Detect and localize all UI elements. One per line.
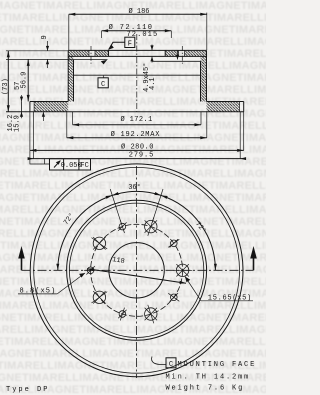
datum F box and leader — [109, 37, 135, 49]
leader 8.8(x5) — [18, 273, 85, 294]
hole radial center ticks — [84, 217, 193, 323]
dim diameter 192.2MAX — [67, 112, 207, 138]
svg-text:36°: 36° — [128, 183, 141, 192]
bolt hole large 288deg — [145, 308, 157, 320]
svg-text:4.1: 4.1 — [149, 77, 157, 90]
small hole 36deg — [170, 239, 178, 247]
dim diameter 172.1 — [73, 112, 201, 125]
mounting face C box — [166, 358, 176, 368]
dim 118 — [87, 269, 186, 284]
friction inner circle b — [69, 203, 203, 337]
dim 57 / 56.9 — [27, 59, 29, 101]
svg-text:(73): (73) — [2, 78, 10, 95]
center bore circle — [109, 243, 164, 298]
svg-text:MAGNETIMARELLIMAGNETIMARELLIMA: MAGNETIMARELLIMAGNETIMARELLIMAGNETIMAREL… — [0, 240, 266, 252]
svg-text:MAGNETIMARELLIMAGNETIMARELLIMA: MAGNETIMARELLIMAGNETIMARELLIMAGNETIMAREL… — [0, 204, 266, 216]
hub pilot step lines — [68, 60, 200, 65]
svg-text:Type DP: Type DP — [6, 386, 49, 394]
dim 72deg right — [161, 195, 215, 270]
svg-text:MAGNETIMARELLIMAGNETIMARELLIMA: MAGNETIMARELLIMAGNETIMARELLIMAGNETIMAREL… — [0, 276, 266, 288]
hat wall left — [68, 50, 73, 101]
svg-text:Ø 186: Ø 186 — [128, 7, 149, 16]
section cutting arrow left — [18, 246, 25, 270]
outer circle 279.5 — [34, 167, 240, 373]
svg-text:MAGNETIMARELLIMAGNETIMARELLIMA: MAGNETIMARELLIMAGNETIMARELLIMAGNETIMAREL… — [0, 252, 266, 264]
svg-text:MAGNETIMARELLIMAGNETIMARELLIMA: MAGNETIMARELLIMAGNETIMARELLIMAGNETIMAREL… — [0, 60, 266, 72]
svg-text:F: F — [128, 41, 132, 49]
section bottom edge line — [6, 111, 244, 113]
dim diameter 186 — [69, 13, 207, 50]
svg-text:FC: FC — [80, 162, 88, 170]
bolt hole large 216deg — [93, 291, 105, 303]
svg-text:Ø 192.2MAX: Ø 192.2MAX — [111, 130, 161, 139]
section cutting arrow right — [250, 246, 257, 270]
dim 72deg left — [58, 195, 112, 270]
mounting face line — [74, 74, 201, 76]
svg-text:MAGNETIMARELLIMAGNETIMARELLIMA: MAGNETIMARELLIMAGNETIMARELLIMAGNETIMAREL… — [0, 72, 266, 84]
bolt hole large 0deg — [176, 264, 188, 276]
svg-text:MAGNETIMARELLIMAGNETIMARELLIMA: MAGNETIMARELLIMAGNETIMARELLIMAGNETIMAREL… — [0, 48, 266, 60]
runout tolerance frame FC — [30, 150, 91, 170]
dim (73) — [6, 51, 42, 112]
mounting face leader curve — [152, 357, 166, 365]
chamfer dim arrows — [150, 45, 179, 63]
dim diameter 72.110 / 72.015 — [102, 31, 172, 38]
dim 9 left — [6, 41, 68, 68]
small hole 108deg — [118, 222, 126, 230]
dim diameter 280.0 — [30, 112, 244, 151]
dim 16.2 / 15.9 — [20, 95, 45, 121]
bolt hole large 72deg — [145, 220, 157, 232]
svg-text:MAGNETIMARELLIMAGNETIMARELLIMA: MAGNETIMARELLIMAGNETIMARELLIMAGNETIMAREL… — [0, 192, 266, 204]
outer circle 280 — [30, 164, 243, 377]
svg-text:Min. TH 14.2mm: Min. TH 14.2mm — [166, 373, 251, 381]
centerline section — [136, 34, 138, 112]
svg-text:C: C — [169, 361, 173, 369]
bolt circle dashed — [91, 224, 183, 316]
dim 279.5 — [28, 112, 247, 160]
bolt hole large 144deg — [93, 237, 105, 249]
hat plate top band — [68, 50, 207, 56]
svg-text:MAGNETIMARELLIMAGNETIMARELLIMA: MAGNETIMARELLIMAGNETIMARELLIMAGNETIMAREL… — [0, 168, 266, 180]
friction ring right — [207, 102, 244, 112]
svg-text:Weight 7.6 Kg: Weight 7.6 Kg — [166, 385, 245, 393]
small hole 324deg — [170, 293, 178, 301]
bolt hole centerlines in section — [91, 46, 182, 64]
vertical centerline bottom view — [136, 166, 138, 378]
dim 36deg — [110, 189, 163, 223]
friction ring left — [30, 102, 68, 112]
small hole 180deg — [86, 266, 94, 274]
svg-text:MAGNETIMARELLIMAGNETIMARELLIMA: MAGNETIMARELLIMAGNETIMARELLIMAGNETIMAREL… — [0, 84, 266, 96]
svg-text:72.015: 72.015 — [126, 31, 158, 39]
friction inner circle a — [67, 200, 207, 340]
svg-text:9: 9 — [41, 35, 49, 39]
svg-text:MOUNTING FACE: MOUNTING FACE — [178, 361, 257, 369]
svg-text:Ø 172.1: Ø 172.1 — [120, 115, 152, 124]
svg-text:MAGNETIMARELLIMAGNETIMARELLIMA: MAGNETIMARELLIMAGNETIMARELLIMAGNETIMAREL… — [0, 348, 266, 360]
horizontal centerline bottom view — [22, 269, 254, 271]
svg-text:C: C — [101, 81, 105, 89]
svg-text:15.65(x5): 15.65(x5) — [208, 294, 252, 302]
hat wall right — [201, 50, 207, 101]
svg-text:0.050: 0.050 — [61, 162, 82, 170]
svg-text:8.8(x5): 8.8(x5) — [20, 288, 57, 296]
datum C box — [98, 76, 108, 88]
svg-text:Ø 280.0: Ø 280.0 — [121, 142, 154, 151]
svg-text:15.9: 15.9 — [13, 115, 21, 132]
svg-text:279.5: 279.5 — [129, 152, 155, 160]
svg-text:MAGNETIMARELLIMAGNETIMARELLIMA: MAGNETIMARELLIMAGNETIMARELLIMAGNETIMAREL… — [0, 324, 266, 336]
small hole 252deg — [118, 310, 126, 318]
svg-text:56.9: 56.9 — [20, 72, 28, 89]
leader 15.65(x5) — [185, 277, 253, 301]
